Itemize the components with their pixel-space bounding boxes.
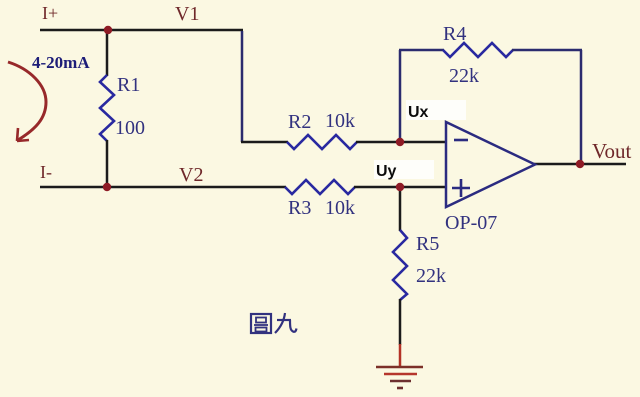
ground bbox=[376, 367, 423, 388]
resistor R4 zigzag bbox=[443, 43, 513, 57]
svg-text:Uy: Uy bbox=[376, 163, 397, 180]
svg-text:V2: V2 bbox=[179, 164, 203, 186]
node junction dot Vout bbox=[576, 160, 584, 168]
wire R5 top lead bbox=[399, 187, 402, 231]
svg-text:V1: V1 bbox=[175, 3, 199, 25]
node junction dot Uy bbox=[396, 183, 404, 191]
svg-text:10k: 10k bbox=[325, 110, 355, 132]
svg-text:I-: I- bbox=[40, 162, 52, 182]
wire V1 vertical down to R2 bbox=[241, 31, 244, 142]
wire R3 right lead to non-inverting input bbox=[354, 186, 446, 189]
node label Uy with white box bbox=[374, 160, 434, 180]
wire feedback top left segment bbox=[399, 49, 444, 52]
resistor R3 zigzag bbox=[285, 180, 355, 194]
wire I+ top horizontal bbox=[40, 29, 243, 32]
svg-text:Vout: Vout bbox=[592, 139, 631, 163]
wire I- / V2 horizontal bbox=[40, 186, 286, 189]
op-amp non-inverting pin plus sign bbox=[452, 179, 470, 197]
wire R5 bottom lead bbox=[399, 299, 402, 345]
svg-text:OP-07: OP-07 bbox=[445, 212, 497, 234]
wire ground lead red bbox=[399, 344, 402, 366]
svg-text:22k: 22k bbox=[416, 265, 446, 287]
svg-text:I+: I+ bbox=[42, 3, 58, 23]
wire R2 left lead bbox=[241, 141, 288, 144]
resistor R1 zigzag bbox=[100, 75, 114, 141]
svg-text:R3: R3 bbox=[288, 197, 311, 219]
svg-text:4-20mA: 4-20mA bbox=[32, 53, 90, 72]
wire feedback top right segment bbox=[512, 49, 582, 52]
node junction dot I+ / R1 bbox=[104, 26, 112, 34]
resistor R2 zigzag bbox=[287, 135, 357, 149]
svg-text:R5: R5 bbox=[416, 233, 439, 255]
svg-text:Ux: Ux bbox=[408, 104, 429, 121]
wire feedback right vertical to output bbox=[580, 50, 583, 165]
svg-text:R2: R2 bbox=[288, 111, 311, 133]
wire output horizontal bbox=[534, 163, 626, 166]
node label Ux with white box bbox=[406, 100, 466, 121]
node junction dot Ux bbox=[396, 138, 404, 146]
wire R1 bottom lead bbox=[106, 140, 109, 188]
svg-text:R4: R4 bbox=[443, 23, 466, 45]
node junction dot I- / R1 bbox=[103, 183, 111, 191]
wire feedback vertical from Ux node bbox=[399, 50, 402, 143]
caption 圖九 (Figure 9) drawn glyphs bbox=[251, 313, 297, 333]
svg-text:100: 100 bbox=[115, 117, 145, 139]
current loop arrow 4-20mA bbox=[8, 62, 46, 140]
svg-text:10k: 10k bbox=[325, 197, 355, 219]
resistor R5 zigzag bbox=[393, 230, 407, 300]
svg-text:22k: 22k bbox=[449, 65, 479, 87]
wire R1 top lead bbox=[106, 30, 109, 76]
svg-text:R1: R1 bbox=[117, 74, 140, 96]
op-amp inverting pin minus sign bbox=[454, 139, 468, 142]
wire R2 right lead to inverting input bbox=[356, 141, 446, 144]
op-amp U1 OP-07 triangle bbox=[446, 122, 535, 207]
